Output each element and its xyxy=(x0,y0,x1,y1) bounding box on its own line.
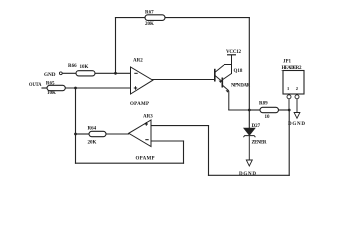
node header pin 1 junction xyxy=(288,109,291,112)
wire top feedback right segment xyxy=(165,17,249,19)
svg-text:R65: R65 xyxy=(46,82,55,87)
svg-text:JP1: JP1 xyxy=(283,60,292,65)
svg-text:Q18: Q18 xyxy=(234,69,243,74)
op-amp AR2 xyxy=(130,59,153,107)
node GND pin xyxy=(44,72,62,78)
svg-text:OPAMP: OPAMP xyxy=(130,102,149,107)
node OUTA branch xyxy=(74,87,77,90)
wire left vertical from R67 to inverting input wire xyxy=(115,18,117,74)
wire top feedback left segment xyxy=(116,17,146,19)
resistor R65 xyxy=(46,82,65,97)
wire R64 to AR3 output apex xyxy=(106,133,129,135)
svg-text:AR2: AR2 xyxy=(133,59,143,64)
svg-text:R89: R89 xyxy=(259,102,268,107)
svg-text:ZENER: ZENER xyxy=(252,141,267,146)
svg-text:20K: 20K xyxy=(88,141,97,146)
svg-text:R66: R66 xyxy=(68,64,77,69)
wire bottom horizontal to output node xyxy=(209,174,290,176)
wire AR3 inverting input right xyxy=(151,140,184,142)
power VCC12 xyxy=(226,50,242,65)
wire R65 to AR2 noninverting input xyxy=(65,87,130,89)
node emitter junction xyxy=(248,109,251,112)
node R64 branch xyxy=(74,133,77,136)
wire right vertical up to header pin node xyxy=(288,110,290,175)
svg-text:R64: R64 xyxy=(88,127,97,132)
svg-text:GND: GND xyxy=(44,72,56,78)
svg-text:10K: 10K xyxy=(47,91,56,96)
connector JP1 HEADER 2 xyxy=(282,60,305,113)
svg-text:10: 10 xyxy=(265,115,271,120)
transistor Q18 NPN Darlington xyxy=(215,55,251,110)
svg-text:D27: D27 xyxy=(252,124,261,129)
wire node to R64 xyxy=(76,133,90,135)
wire R66 to AR2 inverting input xyxy=(95,72,131,74)
diode D27 zener xyxy=(243,124,266,160)
wire R89 to header pin 1 node xyxy=(279,109,290,111)
svg-text:DGND: DGND xyxy=(288,122,305,127)
svg-text:10K: 10K xyxy=(80,65,89,70)
wire AR3 feedback vertical xyxy=(183,141,185,163)
node R67/R66 junction xyxy=(114,72,117,75)
resistor R64 xyxy=(88,127,107,146)
wire AR3 feedback bottom horizontal xyxy=(76,162,184,164)
wire mid vertical from OUTA node down to bottom loop xyxy=(75,88,77,163)
ground DGND below zener xyxy=(239,160,256,177)
svg-text:20K: 20K xyxy=(145,22,154,27)
wire AR2 output to Q18 base xyxy=(153,79,215,81)
ground DGND at header pin 2 xyxy=(288,113,305,128)
wire GND to R66 xyxy=(63,72,77,74)
svg-text:DGND: DGND xyxy=(239,172,256,177)
svg-text:OUTA: OUTA xyxy=(29,82,42,88)
svg-text:NPN DAR: NPN DAR xyxy=(231,84,250,89)
wire emitter horizontal to node xyxy=(229,109,250,111)
wire right vertical R67 to emitter node and zener xyxy=(248,18,250,128)
svg-text:OPAMP: OPAMP xyxy=(136,157,155,162)
wire AR3 noninverting input to right xyxy=(151,125,209,127)
resistor R89 xyxy=(259,102,279,121)
resistor R66 xyxy=(68,64,95,76)
op-amp AR3 xyxy=(129,115,155,162)
svg-text:1 2: 1 2 xyxy=(287,86,299,91)
wire OUTA to R65 xyxy=(42,87,47,89)
resistor R67 xyxy=(145,11,165,28)
wire node to R89 xyxy=(249,109,260,111)
svg-text:R67: R67 xyxy=(145,11,154,16)
wire vertical down from AR3 + input xyxy=(208,126,210,176)
svg-text:AR3: AR3 xyxy=(143,115,153,120)
